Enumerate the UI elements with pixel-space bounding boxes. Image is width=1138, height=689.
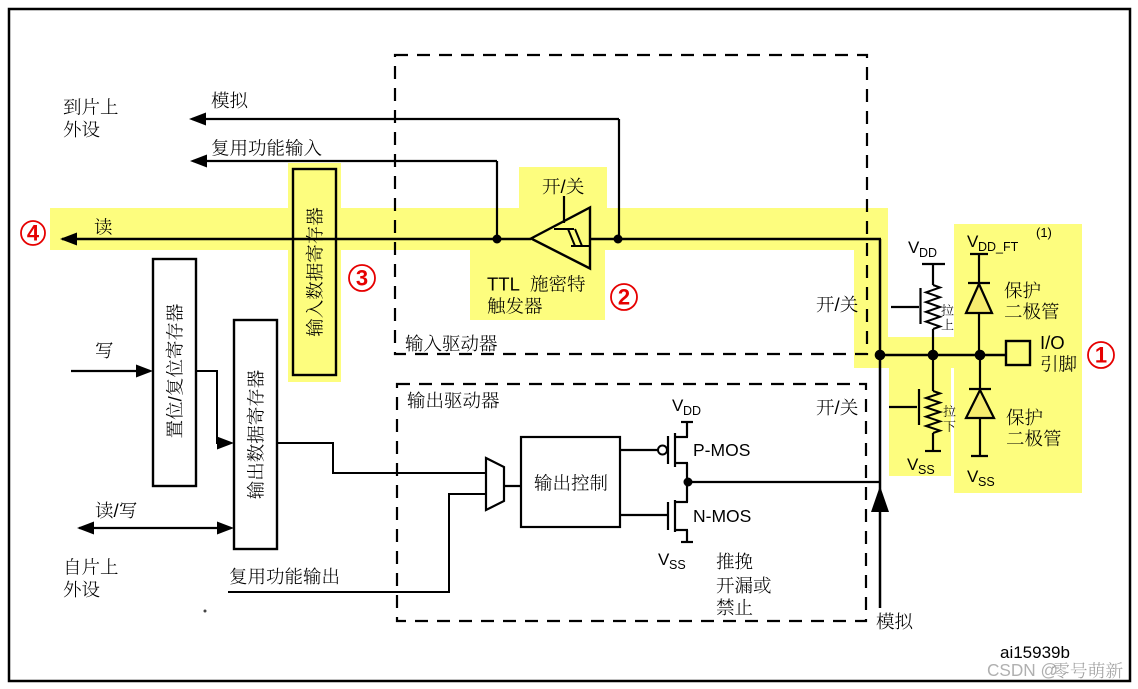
svg-text:/: / <box>164 395 185 401</box>
wire I/O node line <box>880 354 1006 357</box>
svg-text:DD: DD <box>919 246 937 260</box>
label 开/关 schmitt <box>543 176 584 197</box>
wire P/N junction to pad line <box>684 478 881 487</box>
label 到片上 外设 <box>64 98 118 137</box>
label VDD_FT <box>967 225 1052 254</box>
wire output data register to mux <box>277 443 486 473</box>
wire set/reset to output data register <box>196 371 234 450</box>
wire write arrow into set/reset register <box>71 365 153 378</box>
node marker 2 <box>611 284 637 310</box>
wire read/write double arrow <box>77 522 234 535</box>
label 推挽 开漏或 禁止 <box>717 552 771 615</box>
resistor pull-up 拉上 <box>891 285 940 355</box>
label 自片上 外设 <box>64 558 118 597</box>
label 拉下 <box>943 405 955 432</box>
node dot diode <box>975 350 986 361</box>
node marker 4 <box>21 221 45 246</box>
svg-text:/: / <box>114 500 120 521</box>
svg-text:SS: SS <box>978 475 995 489</box>
node marker 1 <box>1088 342 1114 368</box>
svg-text:SS: SS <box>669 558 686 572</box>
mux trapezoid <box>486 458 504 510</box>
label VDD pmos <box>672 396 701 418</box>
svg-text:4: 4 <box>27 221 40 246</box>
register box 输出数据寄存器 <box>234 320 277 549</box>
svg-text:P-MOS: P-MOS <box>693 440 750 460</box>
highlight: right protection region <box>889 224 1082 493</box>
label VDD pull-up <box>908 238 937 260</box>
input driver dashed box 输入驱动器 <box>395 55 867 354</box>
highlight: schmitt trigger on/off box <box>519 167 607 208</box>
label 复用功能输入 <box>212 139 321 156</box>
analog up-arrow on pad line <box>871 486 889 512</box>
svg-text:/: / <box>835 294 841 315</box>
output driver dashed box 输出驱动器 <box>397 384 866 621</box>
diode upper protection VDD_FT <box>966 254 992 355</box>
op-amp: TTL schmitt trigger triangle <box>531 196 590 269</box>
wire read line (4) <box>60 233 531 246</box>
highlight: input data register glow <box>288 163 341 382</box>
resistor pull-down 拉下 <box>889 355 941 451</box>
I/O pin square <box>1006 341 1030 365</box>
label 读/写 <box>96 500 137 521</box>
wire gate to P-MOS <box>620 449 658 451</box>
svg-text:DD: DD <box>683 404 701 418</box>
label 开/关 pull-down <box>817 397 858 418</box>
svg-text:(1): (1) <box>1036 225 1052 240</box>
label 模拟 top <box>212 92 248 109</box>
label 写 <box>96 342 113 358</box>
label 拉上 <box>941 304 953 330</box>
label TTL 施密特 触发器 <box>487 274 585 315</box>
label 输入驱动器 <box>406 334 498 351</box>
svg-text:DD_FT: DD_FT <box>978 240 1019 254</box>
wire analog to peripheral + arrow <box>189 113 619 240</box>
wire mux to output control <box>504 485 521 487</box>
svg-text:1: 1 <box>1095 343 1107 368</box>
register box 置位/复位寄存器 <box>153 259 196 486</box>
wire gate to N-MOS <box>620 514 668 516</box>
junction dot analog tap <box>614 235 623 244</box>
svg-text:3: 3 <box>356 266 368 291</box>
svg-text:I/O: I/O <box>1040 332 1065 353</box>
label 模拟 bottom <box>877 613 913 630</box>
label 保护 二极管 upper <box>1005 281 1059 319</box>
label 复用功能输出 <box>230 567 338 584</box>
label VSS nmos <box>658 550 686 572</box>
svg-text:CSDN @: CSDN @ <box>987 660 1058 680</box>
output control box 输出控制 <box>521 437 620 527</box>
svg-text:/: / <box>561 176 567 197</box>
transistor N-MOS <box>668 482 693 543</box>
node dot pad/read <box>875 350 886 361</box>
highlight: read path band <box>50 208 954 368</box>
wire alternate function input + arrow <box>190 155 497 240</box>
label 输出驱动器 <box>408 391 500 408</box>
transistor P-MOS <box>658 421 693 483</box>
wire pad vertical line <box>879 239 882 608</box>
label 读 <box>95 218 112 235</box>
svg-text:/: / <box>835 397 841 418</box>
node marker 3 <box>349 265 375 291</box>
svg-text:TTL: TTL <box>487 274 520 295</box>
watermark CSDN <box>987 660 1123 680</box>
svg-text:N-MOS: N-MOS <box>693 506 751 526</box>
label 保护 二极管 lower <box>1007 408 1061 446</box>
label 开/关 pull-up <box>817 294 858 315</box>
wire schmitt input line <box>589 238 881 241</box>
label I/O 引脚 <box>1040 332 1076 372</box>
diode lower protection VSS <box>966 355 994 456</box>
register box 输入数据寄存器 (3) <box>293 169 336 375</box>
svg-text:2: 2 <box>618 285 630 310</box>
label VSS diode <box>967 467 995 489</box>
VDD rail pull-up <box>922 264 945 285</box>
wire alternate function output to mux <box>228 494 486 592</box>
node dot pull-up <box>928 350 939 361</box>
junction dot AF tap <box>493 235 502 244</box>
highlight: schmitt trigger label box <box>470 250 605 320</box>
label VSS pull-down <box>907 455 935 477</box>
svg-text:SS: SS <box>918 463 935 477</box>
stray dot <box>204 610 207 613</box>
